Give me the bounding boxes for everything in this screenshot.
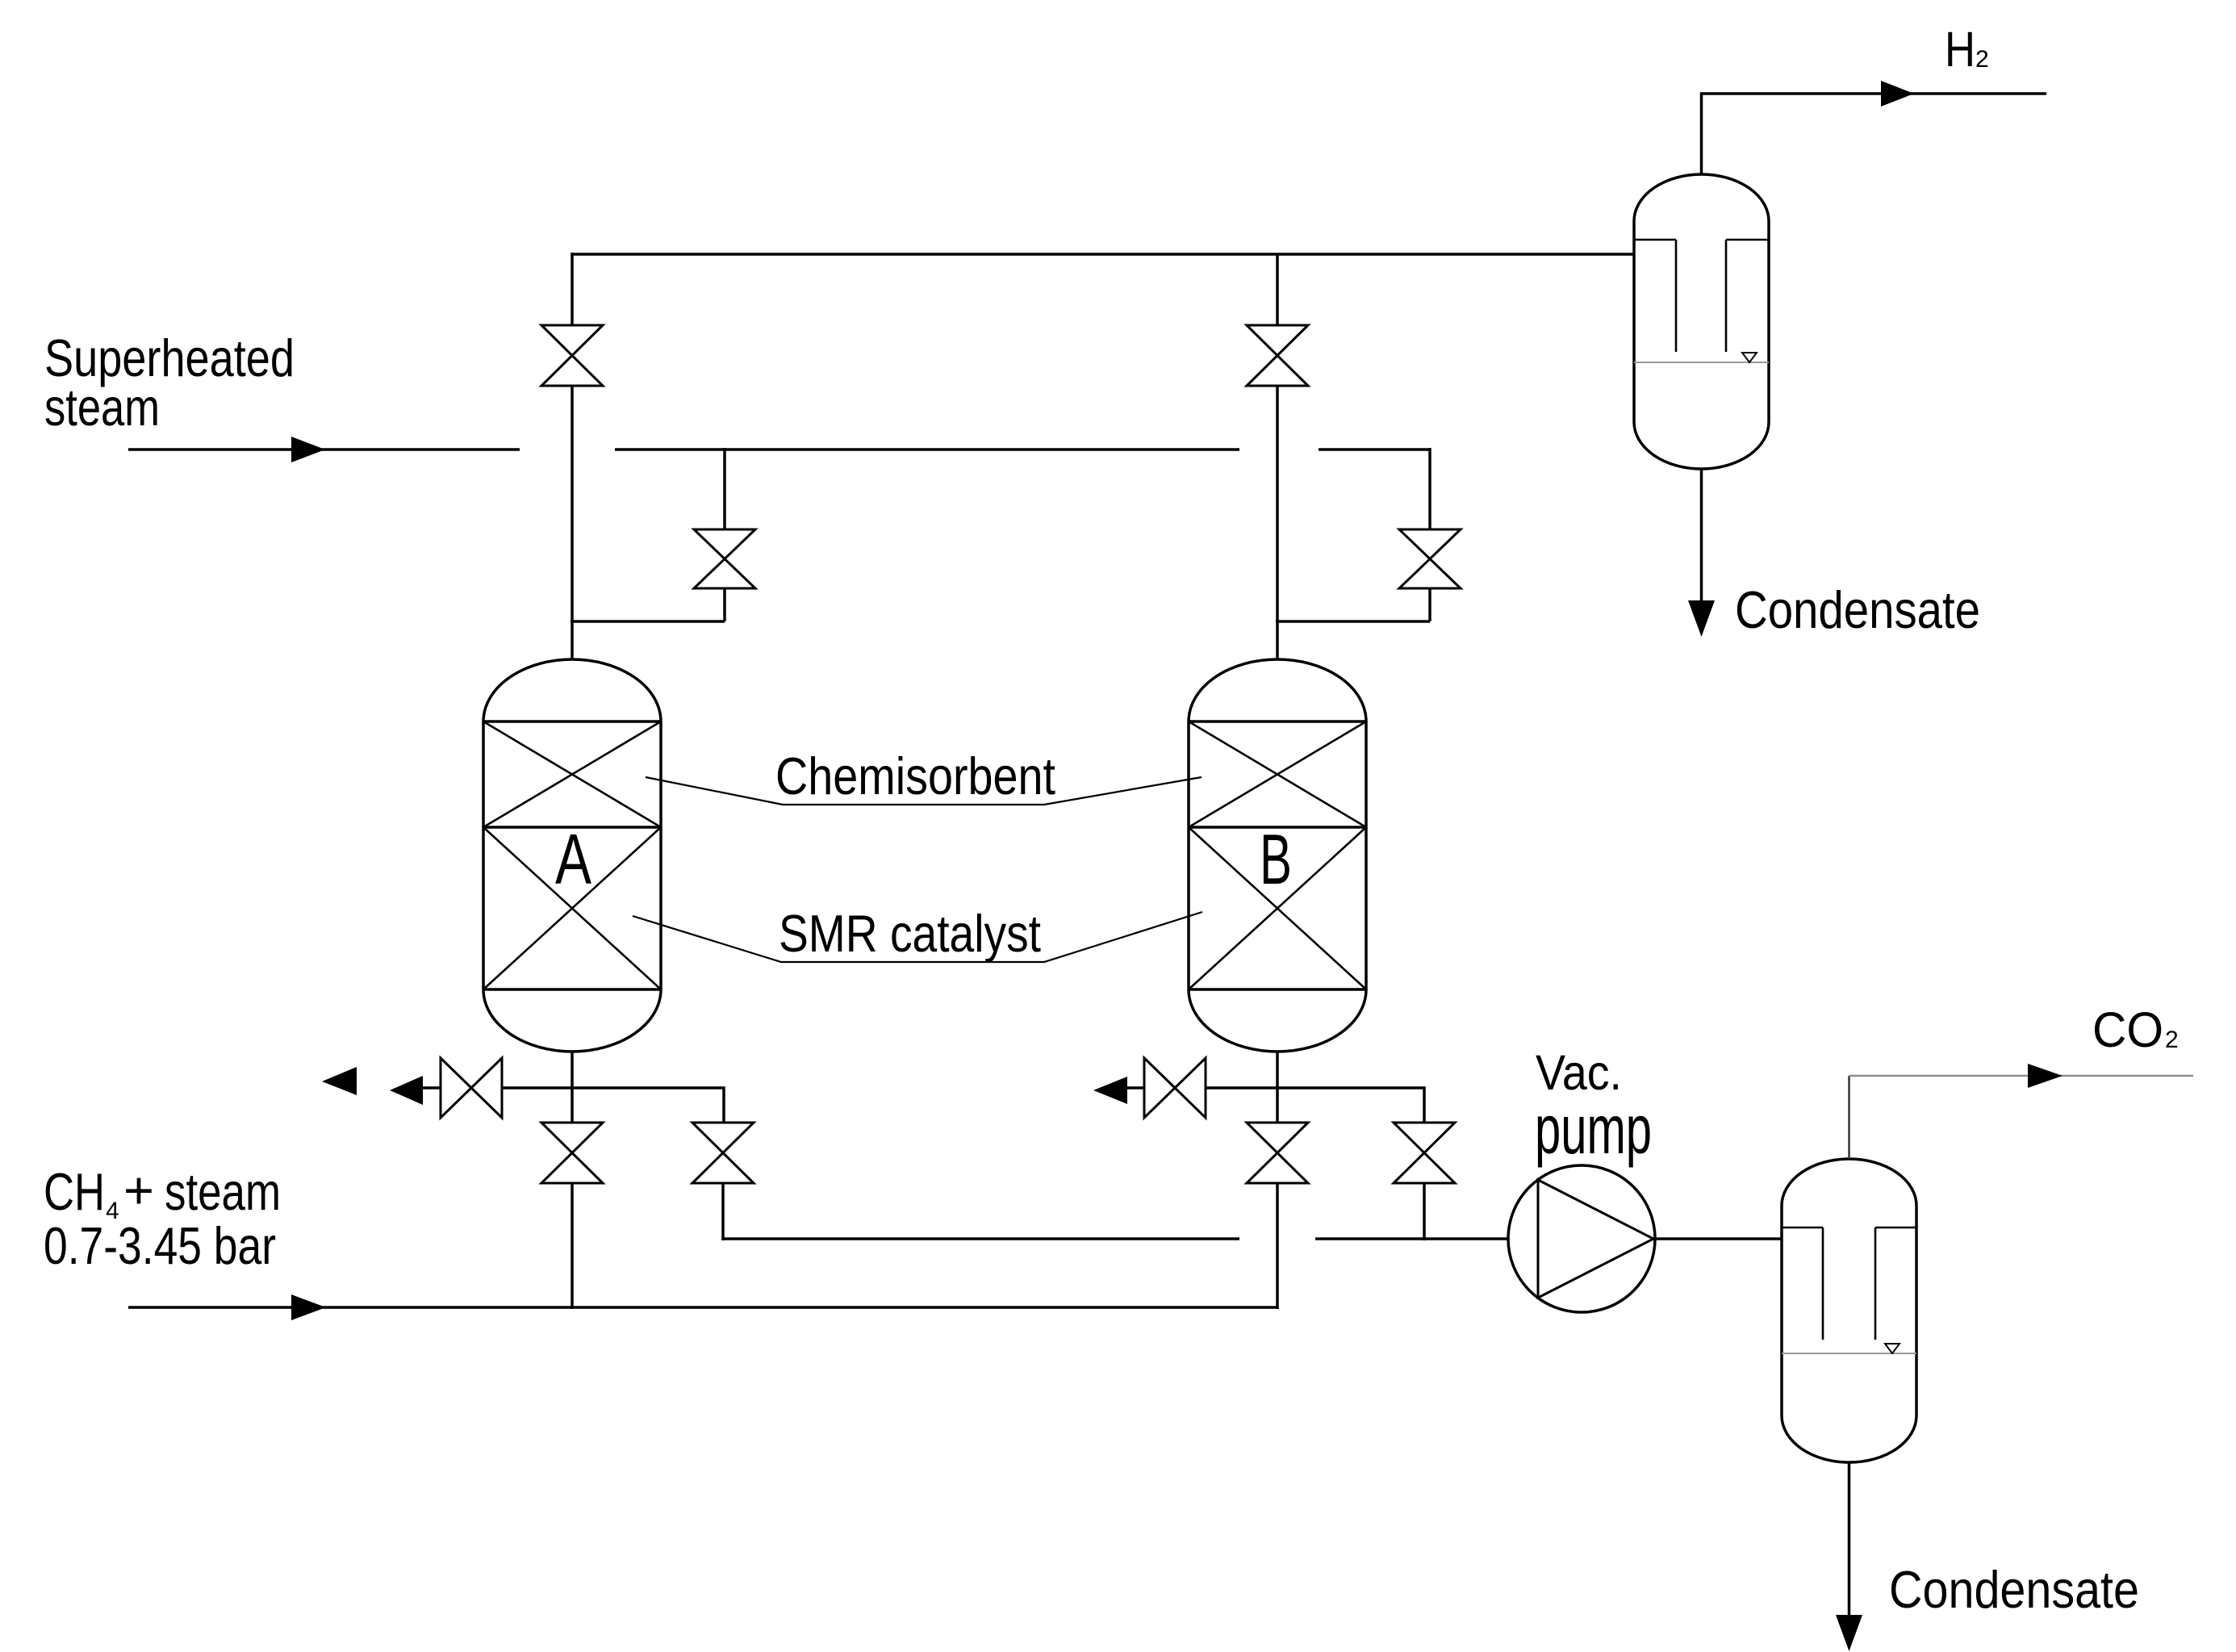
wire vessel A top riser lower	[570, 386, 574, 659]
vessel A SMR catalyst X	[483, 827, 661, 989]
svg-text:CH: CH	[44, 1162, 105, 1221]
svg-text:B: B	[1260, 819, 1292, 899]
svg-text:0.7-3.45 bar: 0.7-3.45 bar	[44, 1216, 276, 1275]
H2 separator level mark	[1742, 353, 1757, 362]
wire A evac drop	[721, 1183, 725, 1240]
svg-text:pump: pump	[1535, 1092, 1652, 1169]
svg-text:CO: CO	[2092, 1002, 2163, 1057]
wire evacuation header segment 2	[1315, 1237, 1510, 1240]
wire pump outlet	[1655, 1237, 1782, 1240]
wire B steam bypass drop	[1428, 448, 1431, 529]
svg-text:Chemisorbent: Chemisorbent	[775, 747, 1055, 805]
wire CH4 feed line	[128, 1306, 1277, 1309]
leader Chemisorbent	[646, 777, 1202, 805]
H2 separator shell	[1634, 174, 1769, 469]
wire vessel B top riser lower	[1276, 386, 1279, 659]
vessel B chemisorbent X	[1189, 721, 1366, 827]
arrow A purge attached	[390, 1076, 423, 1105]
valve A feed	[541, 1123, 603, 1183]
svg-text:SMR catalyst: SMR catalyst	[779, 904, 1041, 963]
svg-text:2: 2	[1975, 46, 1989, 73]
valve A evacuation	[692, 1123, 754, 1183]
svg-text:Condensate: Condensate	[1735, 580, 1980, 639]
H2 separator inlet tube	[1676, 240, 1726, 352]
arrow H2 condensate	[1688, 600, 1715, 637]
arrow steam feed	[291, 437, 325, 462]
wire vessel A top riser upper	[570, 253, 574, 325]
svg-text:+: +	[123, 1161, 154, 1219]
svg-text:steam: steam	[44, 378, 160, 437]
wire top product header to H2 separator	[572, 253, 1634, 256]
pump triangle	[1538, 1180, 1653, 1298]
wire B evac drop	[1423, 1183, 1426, 1240]
wire B purge line	[1127, 1088, 1424, 1123]
wire vessel B bottom pipe	[1276, 1052, 1279, 1123]
CO2 separator tray	[1782, 1227, 1916, 1229]
wire superheated steam line segment 1	[128, 448, 520, 451]
wire CO2 product line	[1849, 1075, 2194, 1077]
wire H2 condensate pipe	[1700, 469, 1703, 604]
CO2 separator level line	[1782, 1353, 1916, 1354]
wire superheated steam line segment 2	[615, 448, 1239, 451]
valve B evacuation	[1394, 1123, 1455, 1183]
arrow H2	[1881, 81, 1914, 107]
valve B top main	[1247, 325, 1308, 386]
vessel B SMR catalyst X	[1189, 827, 1366, 989]
arrow B purge	[1093, 1077, 1127, 1104]
vessel A chemisorbent X	[483, 721, 661, 827]
wire H2 outlet riser	[1702, 94, 2047, 174]
vessel A weld lines	[483, 721, 661, 989]
CO2 separator inlet tube	[1823, 1227, 1875, 1340]
svg-text:steam: steam	[165, 1162, 281, 1221]
vessel B weld lines	[1189, 721, 1366, 989]
vessel B shell	[1189, 659, 1366, 1052]
valve A purge	[441, 1058, 502, 1118]
wire A feed drop	[570, 1183, 574, 1309]
valve A top main	[541, 325, 603, 386]
wire vessel B top riser upper	[1276, 254, 1279, 325]
CO2 separator shell	[1782, 1159, 1916, 1462]
arrow CH4 feed	[291, 1294, 326, 1320]
wire B feed riser	[1276, 1183, 1279, 1309]
svg-text:2: 2	[2165, 1027, 2179, 1053]
vessel A shell	[483, 659, 661, 1052]
valve B feed	[1247, 1123, 1308, 1183]
pump circle U1	[1508, 1165, 1655, 1312]
wire CO2 condensate pipe	[1848, 1462, 1851, 1616]
leader SMR catalyst	[633, 912, 1202, 962]
arrow CO2 condensate	[1836, 1615, 1862, 1651]
valve B purge	[1144, 1058, 1206, 1118]
wire B steam bypass return	[1276, 588, 1430, 621]
svg-text:A: A	[555, 819, 591, 899]
CO2 separator level mark	[1885, 1344, 1900, 1353]
wire CO2 outlet riser	[1848, 1076, 1850, 1159]
svg-text:Condensate: Condensate	[1889, 1560, 2139, 1619]
wire A steam bypass drop	[723, 448, 726, 529]
wire A purge line	[423, 1088, 724, 1123]
H2 separator level line	[1634, 362, 1769, 363]
wire superheated steam line segment 3	[1319, 448, 1430, 451]
wire vessel A bottom pipe	[570, 1052, 574, 1123]
H2 separator tray	[1634, 239, 1769, 241]
valve B steam bypass	[1399, 529, 1461, 588]
arrow CO2	[2028, 1064, 2063, 1088]
valve A steam bypass	[694, 529, 755, 588]
wire A steam bypass return	[570, 588, 725, 621]
arrow A purge floating	[322, 1067, 357, 1095]
svg-text:H: H	[1945, 22, 1975, 77]
wire evacuation header segment 1	[723, 1237, 1239, 1240]
